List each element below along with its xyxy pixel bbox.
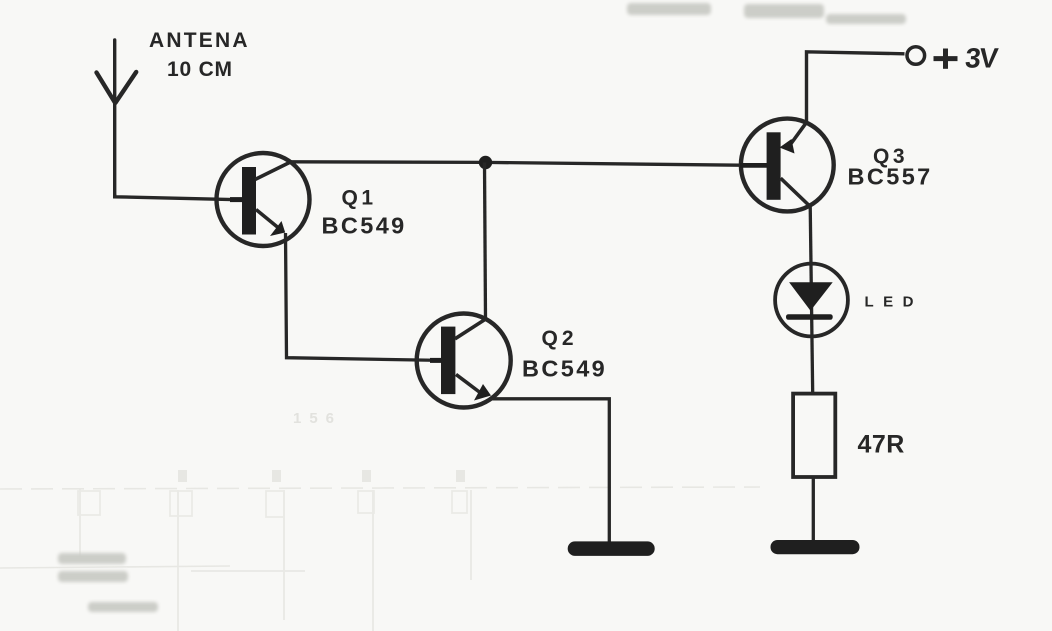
svg-text:LED: LED <box>865 294 924 311</box>
svg-text:10 CM: 10 CM <box>167 58 233 81</box>
svg-text:47R: 47R <box>858 431 905 459</box>
svg-text:3V: 3V <box>964 43 1000 74</box>
svg-text:BC557: BC557 <box>848 164 933 190</box>
svg-text:156: 156 <box>293 410 342 427</box>
svg-text:Q2: Q2 <box>542 327 578 350</box>
svg-text:BC549: BC549 <box>522 356 607 382</box>
svg-text:BC549: BC549 <box>322 213 407 239</box>
svg-text:Q1: Q1 <box>342 187 377 210</box>
svg-text:ANTENA: ANTENA <box>149 29 250 52</box>
